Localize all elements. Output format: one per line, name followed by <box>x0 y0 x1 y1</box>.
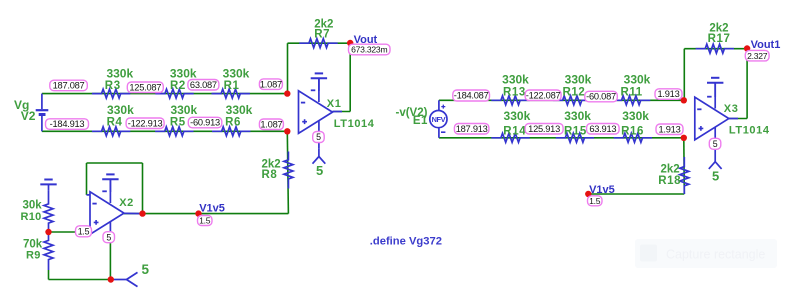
value box node 187.913 <box>454 124 489 135</box>
label Vg <box>14 98 29 112</box>
svg-text:R10: R10 <box>21 211 42 223</box>
svg-text:330k: 330k <box>170 103 197 117</box>
wire R7 feedback top row <box>288 42 351 44</box>
resistor R11 <box>612 96 650 105</box>
value box node -184.913 <box>46 119 89 130</box>
svg-text:63.087: 63.087 <box>190 80 217 90</box>
label R15 <box>564 125 587 137</box>
label R14 <box>503 125 526 137</box>
label R3 <box>105 80 121 92</box>
svg-text:1.913: 1.913 <box>658 124 680 134</box>
ground above X2 <box>102 174 118 192</box>
label R16 value 330k <box>622 109 649 123</box>
svg-text:5: 5 <box>712 169 719 184</box>
svg-text:5: 5 <box>713 139 718 149</box>
label R7 value 2k2 <box>314 18 333 30</box>
value box Vout1 <box>745 50 769 61</box>
resistor R8 <box>284 152 293 189</box>
svg-text:Vout1: Vout1 <box>751 39 781 51</box>
junction supply rail bottom left <box>108 276 114 282</box>
label R4 value 330k <box>107 103 134 117</box>
node V1v5 right <box>585 184 615 197</box>
resistor R16 <box>614 133 652 142</box>
svg-text:330k: 330k <box>107 103 134 117</box>
wire top row right <box>439 99 684 101</box>
value box node -60.913 <box>188 117 222 128</box>
label R13 <box>503 86 526 98</box>
junction X1 noninverting input <box>284 128 290 134</box>
value box node -60.087 <box>585 91 618 102</box>
svg-text:-122.087: -122.087 <box>526 90 561 100</box>
wire bottom row right <box>439 137 684 139</box>
svg-text:1.087: 1.087 <box>260 119 282 129</box>
junction X1 inverting input <box>284 90 290 96</box>
resistor R12 <box>553 96 591 105</box>
svg-text:330k: 330k <box>504 109 531 123</box>
wire X3 output <box>729 118 747 120</box>
value box V1v5 left <box>198 216 213 226</box>
junction X3 inverting input <box>681 97 687 103</box>
pin value box X3 VEE <box>709 138 721 149</box>
label R1 value 330k <box>223 67 250 81</box>
label LT1014 X1 <box>334 118 375 130</box>
resistor R5 <box>155 127 193 136</box>
svg-text:LT1014: LT1014 <box>334 118 375 130</box>
wire X2 feedback loop <box>87 163 143 214</box>
wire Vout vertical <box>349 43 351 111</box>
label R8 value 2k2 <box>262 158 281 170</box>
junction R10 R9 <box>45 229 51 235</box>
value box node -184.087 <box>453 90 490 101</box>
value box node 125.913 <box>525 124 563 135</box>
svg-text:-60.913: -60.913 <box>190 118 220 128</box>
label LT1014 X3 <box>729 124 770 136</box>
label X1 <box>327 98 342 110</box>
value box node 1.913 bottom <box>656 124 683 135</box>
value box node 63.913 <box>587 124 620 135</box>
value box node -122.087 <box>525 90 561 101</box>
svg-text:1.5: 1.5 <box>589 196 601 206</box>
voltage source V2 <box>36 94 49 132</box>
value box node 187.087 <box>50 80 88 91</box>
junction X2 output <box>139 210 145 216</box>
ground above X1 <box>311 73 327 91</box>
svg-text:330k: 330k <box>564 109 591 123</box>
label R11 <box>621 86 643 98</box>
svg-text:R16: R16 <box>621 125 644 137</box>
wire feedback vertical X1 <box>287 43 289 93</box>
label R18 value 2k2 <box>661 163 680 175</box>
ground above R10 <box>40 180 56 191</box>
wire bottom supply rail <box>49 270 112 280</box>
svg-text:R11: R11 <box>621 86 643 98</box>
label X2 <box>119 197 134 209</box>
pin value box X2 plus input 1.5 <box>76 226 92 237</box>
wire bottom row left <box>42 130 287 132</box>
wire R10 junction to X2 plus input <box>49 231 91 233</box>
svg-text:-184.087: -184.087 <box>454 91 489 101</box>
svg-text:X2: X2 <box>119 197 134 209</box>
resistor R1 <box>212 89 250 98</box>
junction X3 noninverting input <box>681 135 687 141</box>
pin value box X2 VEE <box>103 232 115 243</box>
label R2 <box>170 80 186 92</box>
wire X2 VEE to supply rail <box>109 243 111 280</box>
svg-text:V2: V2 <box>21 109 36 123</box>
power 5 supply X1 <box>313 149 326 164</box>
svg-text:-122.913: -122.913 <box>128 118 163 128</box>
svg-text:R14: R14 <box>503 125 526 137</box>
resistor R6 <box>212 127 250 136</box>
svg-text:R6: R6 <box>225 117 241 129</box>
svg-text:1.913: 1.913 <box>657 89 679 99</box>
power 5 supply X3 <box>709 149 722 169</box>
label R14 value 330k <box>504 109 531 123</box>
label R9 value 70k <box>23 239 43 251</box>
svg-text:5: 5 <box>316 163 323 178</box>
power 5 supply bottom left <box>111 272 137 286</box>
value box node -122.913 <box>126 118 164 129</box>
wire Vout1 vertical <box>746 49 748 119</box>
wire top row left <box>42 93 287 95</box>
node Vout <box>347 34 378 46</box>
svg-text:R1: R1 <box>224 80 240 92</box>
resistor R3 <box>92 89 130 98</box>
text .define Vg372 <box>370 235 442 247</box>
svg-text:R17: R17 <box>708 33 731 45</box>
label -v(V2) <box>396 107 428 119</box>
resistor R13 <box>491 96 529 105</box>
label R18 <box>658 175 681 187</box>
label R5 <box>170 117 186 129</box>
svg-text:330k: 330k <box>106 67 133 81</box>
svg-text:V1v5: V1v5 <box>199 203 225 215</box>
svg-text:X3: X3 <box>724 103 739 115</box>
source E1 <box>430 100 447 138</box>
svg-text:LT1014: LT1014 <box>729 124 770 136</box>
op-amp X3 <box>695 83 729 149</box>
label R12 value 330k <box>565 72 592 86</box>
svg-text:Capture rectangle: Capture rectangle <box>666 248 765 262</box>
resistor R9 <box>44 232 53 270</box>
wire V1v5 horizontal <box>124 212 289 214</box>
label R1 <box>224 80 240 92</box>
resistor R7 <box>299 39 337 48</box>
resistor R18 <box>680 157 689 194</box>
label R9 <box>26 249 41 261</box>
resistor R17 <box>696 44 734 53</box>
svg-text:R4: R4 <box>107 117 123 129</box>
label R2 value 330k <box>170 67 197 81</box>
label R4 <box>107 117 123 129</box>
svg-text:R7: R7 <box>314 29 330 41</box>
svg-text:5: 5 <box>316 132 321 142</box>
value box node 1.087 top <box>259 79 282 90</box>
label 5 supply X3 <box>712 169 719 184</box>
svg-text:R5: R5 <box>170 117 186 129</box>
svg-text:5: 5 <box>142 262 150 277</box>
label 5 supply bottom left <box>142 262 150 277</box>
value box Vout <box>349 44 391 55</box>
svg-text:330k: 330k <box>624 72 651 86</box>
label R6 <box>225 117 241 129</box>
svg-text:R15: R15 <box>564 125 587 137</box>
node V1v5 left <box>195 203 225 217</box>
svg-text:X1: X1 <box>327 98 342 110</box>
label R10 value 30k <box>23 200 43 212</box>
svg-text:1.5: 1.5 <box>199 216 211 226</box>
label R17 <box>708 33 731 45</box>
wire feedback vertical X3 <box>683 49 685 101</box>
label R10 <box>21 211 42 223</box>
svg-text:330k: 330k <box>223 67 250 81</box>
label R5 value 330k <box>170 103 197 117</box>
svg-text:125.087: 125.087 <box>129 82 161 92</box>
label R12 <box>563 86 586 98</box>
value box node 1.087 bottom <box>259 119 283 130</box>
svg-text:125.913: 125.913 <box>528 124 560 134</box>
svg-text:330k: 330k <box>226 103 253 117</box>
label 5 supply X1 <box>316 163 323 178</box>
resistor R4 <box>92 127 130 136</box>
svg-text:1.087: 1.087 <box>260 79 282 89</box>
svg-text:R18: R18 <box>658 175 681 187</box>
value box node 63.087 <box>188 80 219 91</box>
svg-text:330k: 330k <box>502 72 529 86</box>
wire V1v5 right horizontal <box>588 193 684 195</box>
op-amp X2 <box>90 180 124 243</box>
op-amp X1 <box>299 79 333 149</box>
label E1 <box>413 115 428 127</box>
label R11 value 330k <box>624 72 651 86</box>
svg-text:E1: E1 <box>413 115 428 127</box>
svg-text:30k: 30k <box>23 200 43 212</box>
label X3 <box>724 103 739 115</box>
svg-text:V1v5: V1v5 <box>589 184 615 196</box>
pin value box X1 VEE <box>313 132 325 143</box>
watermark capture overlay <box>635 239 777 268</box>
svg-text:R8: R8 <box>262 169 278 181</box>
resistor R2 <box>155 89 193 98</box>
value box V1v5 right <box>588 196 603 206</box>
label R13 value 330k <box>502 72 529 86</box>
svg-text:673.323m: 673.323m <box>351 45 387 55</box>
value box node 125.087 <box>127 82 163 93</box>
resistor R10 <box>44 190 53 232</box>
svg-text:NFV: NFV <box>432 115 446 124</box>
node Vout1 <box>744 39 780 52</box>
svg-text:187.087: 187.087 <box>53 81 85 91</box>
label R16 <box>621 125 644 137</box>
label R3 value 330k <box>106 67 133 81</box>
wire R8 column <box>287 131 288 213</box>
svg-text:.define Vg372: .define Vg372 <box>370 235 442 247</box>
svg-text:R12: R12 <box>563 86 586 98</box>
resistor R15 <box>556 133 594 142</box>
svg-text:1.5: 1.5 <box>78 226 90 236</box>
svg-text:2k2: 2k2 <box>661 163 680 175</box>
wire X1 output <box>333 111 351 113</box>
svg-text:330k: 330k <box>622 109 649 123</box>
label R7 <box>314 29 330 41</box>
svg-text:330k: 330k <box>170 67 197 81</box>
wire R18 column <box>683 138 686 194</box>
value box node 1.913 top <box>655 89 682 100</box>
label R15 value 330k <box>564 109 591 123</box>
label R17 value 2k2 <box>709 22 728 34</box>
svg-text:5: 5 <box>106 232 111 242</box>
svg-text:R2: R2 <box>170 80 186 92</box>
svg-text:R9: R9 <box>26 249 41 261</box>
svg-text:R13: R13 <box>503 86 526 98</box>
svg-text:330k: 330k <box>565 72 592 86</box>
svg-text:-60.087: -60.087 <box>586 92 616 102</box>
svg-text:-184.913: -184.913 <box>50 119 85 129</box>
label R6 value 330k <box>226 103 253 117</box>
svg-text:63.913: 63.913 <box>589 124 616 134</box>
wire R17 feedback top row <box>684 48 747 50</box>
svg-text:187.913: 187.913 <box>456 124 488 134</box>
label V2 <box>21 109 36 123</box>
svg-text:2.327: 2.327 <box>747 51 768 61</box>
ground above X3 <box>707 78 723 97</box>
resistor R14 <box>491 133 529 142</box>
svg-text:R3: R3 <box>105 80 121 92</box>
label R8 <box>262 169 278 181</box>
